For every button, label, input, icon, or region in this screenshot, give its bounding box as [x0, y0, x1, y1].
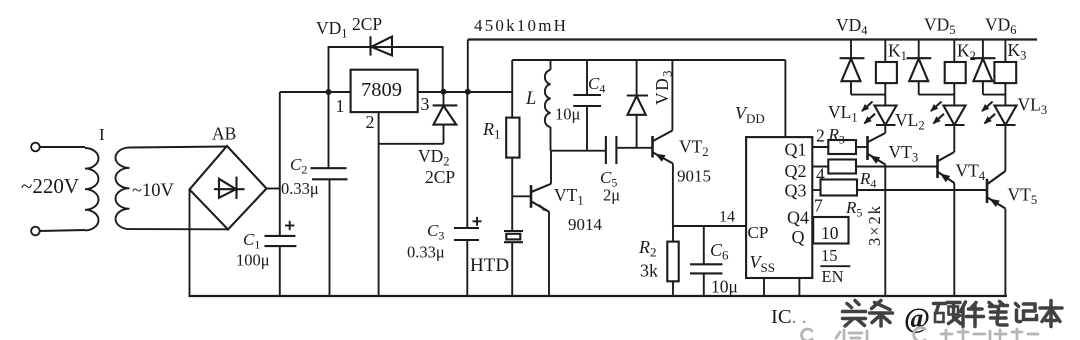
wire VD1 bypass loop — [329, 47, 443, 92]
wire R3 to VT3 base — [856, 146, 867, 148]
wire C6 top — [703, 226, 705, 264]
wire 7809 pin2 to ground — [378, 112, 380, 296]
svg-text:9015: 9015 — [677, 167, 711, 186]
svg-text:450k10mH: 450k10mH — [474, 16, 568, 35]
capacitor C3 — [454, 217, 482, 240]
LED VL3 — [981, 102, 1016, 126]
wire Q1 to R3 — [812, 146, 828, 148]
svg-text:I: I — [99, 125, 105, 144]
transformer T primary winding — [85, 148, 99, 230]
wire C1 vertical upper — [279, 92, 281, 236]
capacitor C6 — [690, 264, 723, 273]
svg-text:7: 7 — [814, 196, 823, 216]
wire collector node to IC pin14 — [673, 225, 746, 227]
wire VL2 to VT4 collector — [953, 125, 955, 152]
svg-text:AB: AB — [212, 124, 236, 144]
watermark faint bottom row — [802, 328, 1038, 340]
svg-text:HTD: HTD — [470, 255, 509, 276]
inductor L — [545, 60, 551, 151]
wire K1 to VL1 — [884, 83, 886, 105]
svg-text:2CP: 2CP — [352, 14, 382, 34]
wire VDD riser — [784, 60, 786, 137]
wire C2 to ground — [329, 179, 331, 296]
svg-text:Q2: Q2 — [785, 161, 807, 181]
wire secondary top to bridge — [130, 147, 228, 148]
wire tank node — [551, 150, 606, 152]
svg-text:100μ: 100μ — [236, 251, 270, 270]
svg-text:10: 10 — [821, 223, 839, 243]
node dot pin1 junction — [326, 89, 332, 95]
wire C4 top — [586, 60, 588, 95]
transformer T secondary winding — [115, 148, 129, 230]
wire VT5 emitter to ground — [1004, 209, 1006, 297]
wire base node to VT1 base — [512, 195, 530, 197]
resistor R4 — [828, 160, 856, 174]
wire K2 to VL2 — [953, 83, 955, 105]
regulator 7809 box — [351, 70, 418, 112]
capacitor C5 — [606, 136, 617, 164]
wire VT2 emitter riser — [671, 60, 673, 131]
wire R2 top — [672, 226, 674, 242]
wire R1 top — [511, 60, 513, 118]
wire C3 vertical upper — [466, 92, 468, 228]
wire VL1 to VT3 collector — [884, 125, 886, 133]
wire HTD to ground — [511, 242, 513, 296]
diode VD2 — [433, 92, 458, 144]
transistor VT4 — [938, 152, 955, 183]
svg-text:Q1: Q1 — [785, 140, 807, 160]
capacitor C2 — [311, 168, 348, 179]
svg-text:3×2k: 3×2k — [865, 204, 884, 246]
wire VSS right to ground — [798, 278, 800, 296]
transistor VT3 — [868, 133, 886, 165]
diode VD4 — [840, 40, 865, 95]
wire R5 to VT5 base — [857, 189, 987, 191]
LED VL2 — [930, 102, 965, 126]
diode VD5 — [907, 40, 932, 95]
wire VD5 to K2 node — [919, 94, 955, 96]
wire C6 to ground — [703, 273, 705, 296]
svg-text:Q: Q — [792, 227, 805, 247]
wire bridge right corner to C1 line — [267, 188, 280, 190]
wire R4 to VT4 base — [856, 166, 937, 168]
svg-text:Q3: Q3 — [785, 181, 807, 201]
IC U1 box — [746, 137, 812, 278]
diode VD3 — [627, 60, 648, 148]
wire C5 to VT2 base — [616, 147, 652, 149]
LED VL1 — [861, 102, 896, 126]
piezo sounder HTD — [504, 231, 523, 242]
svg-text:9014: 9014 — [568, 215, 603, 234]
wire C1 to ground — [279, 246, 281, 296]
transistor VT1 — [531, 184, 551, 212]
svg-text:1: 1 — [336, 96, 345, 116]
bridge rectifier AB diamond — [190, 146, 267, 230]
wire VD6 to K3 node — [983, 94, 1006, 96]
svg-text:CP: CP — [748, 223, 769, 242]
capacitor C4 — [573, 95, 601, 106]
resistor R5 — [821, 180, 858, 196]
top rail +9V — [468, 38, 1037, 40]
resistor R2 — [667, 242, 678, 282]
bridge inner diode — [214, 177, 245, 199]
relay K2 — [945, 40, 966, 84]
wire VT4 emitter to ground — [953, 183, 955, 296]
svg-text:10μ: 10μ — [711, 277, 738, 297]
wire VD4 to K1 node — [851, 94, 885, 96]
terminal input top — [31, 143, 40, 152]
wire +dc to 7809 pin1 — [280, 91, 351, 93]
transistor VT5 — [987, 171, 1005, 209]
wire C4 bottom — [586, 106, 588, 151]
pin 10 box — [813, 217, 848, 244]
svg-text:10μ: 10μ — [555, 105, 581, 124]
svg-text:3: 3 — [421, 94, 430, 114]
wire terminal top to primary — [40, 146, 85, 148]
svg-text:0.33μ: 0.33μ — [281, 179, 319, 198]
svg-text:IC. .: IC. . — [771, 306, 807, 328]
svg-text:~220V: ~220V — [21, 174, 79, 198]
relay K3 — [994, 40, 1016, 84]
node dot pin3 junction — [441, 89, 447, 95]
wire VT1 emitter to ground — [548, 212, 550, 296]
wire K3 to VL3 — [1004, 83, 1006, 105]
svg-text:L: L — [525, 89, 536, 109]
svg-text:EN: EN — [822, 267, 844, 286]
wire VL3 to VT5 collector — [1004, 125, 1006, 171]
resistor R1 — [506, 118, 519, 158]
wire terminal bottom to primary — [40, 230, 85, 231]
svg-text:2μ: 2μ — [603, 186, 620, 205]
svg-text:7809: 7809 — [361, 79, 402, 101]
wire Q2 to R4 — [812, 166, 828, 168]
wire bridge left corner to ground rail — [189, 190, 191, 297]
EN overbar — [820, 265, 850, 267]
wire pin2 to VD2 anode — [379, 143, 444, 145]
wire R2 to ground — [672, 281, 674, 296]
node dot C3 riser junction — [465, 89, 471, 95]
watermark toutiao — [843, 301, 1063, 327]
wire secondary bottom to bridge — [130, 228, 229, 230]
wire VT2 collector down — [672, 164, 674, 227]
svg-text:15: 15 — [821, 246, 838, 265]
resistor R3 — [828, 140, 856, 154]
svg-text:0.33μ: 0.33μ — [407, 243, 445, 262]
ground rail (bottom) — [189, 295, 1008, 297]
second rail — [512, 59, 785, 61]
wire VT1 collector riser — [550, 151, 552, 184]
svg-text:2CP: 2CP — [425, 167, 455, 187]
wire C3 to ground — [466, 240, 468, 296]
wire C2 vertical upper — [328, 92, 330, 168]
wire 7809 pin3 output — [418, 91, 513, 93]
wire riser to top rail — [467, 40, 469, 93]
wire VSS left to ground — [763, 278, 765, 296]
transistor VT2 — [653, 131, 673, 164]
capacitor C1 — [265, 221, 297, 246]
wire Q3 to R5 — [812, 189, 820, 191]
svg-text:2: 2 — [816, 126, 825, 146]
svg-text:2: 2 — [366, 112, 375, 132]
wire VT3 emitter to ground — [884, 165, 886, 297]
relay K1 — [876, 40, 897, 84]
diode VD6 — [970, 40, 995, 95]
svg-text:14: 14 — [719, 209, 735, 226]
svg-text:Q4: Q4 — [787, 208, 809, 228]
diode VD1 — [371, 36, 393, 55]
wire R1 bottom to base node — [511, 158, 513, 231]
terminal input bottom — [31, 227, 40, 236]
svg-text:3k: 3k — [640, 261, 658, 281]
svg-text:~10V: ~10V — [132, 181, 175, 201]
